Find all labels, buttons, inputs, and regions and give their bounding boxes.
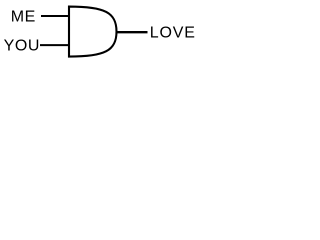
AND gate U1 xyxy=(69,7,117,57)
wire ME input xyxy=(41,15,69,17)
wire YOU input xyxy=(40,44,69,46)
svg-text:ME: ME xyxy=(11,9,36,26)
wire output xyxy=(116,31,148,33)
svg-text:YOU: YOU xyxy=(4,38,40,55)
svg-text:LOVE: LOVE xyxy=(150,25,196,42)
